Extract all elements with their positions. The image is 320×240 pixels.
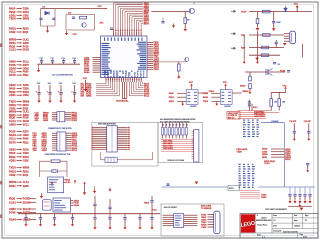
net label RST0 with input arrow xyxy=(9,140,29,144)
capacitor C5 xyxy=(161,22,164,23)
capacitor C13 row1 xyxy=(72,58,76,64)
svg-text:RXD1: RXD1 xyxy=(262,149,268,151)
svg-text:RD01: RD01 xyxy=(9,41,16,45)
caption red xyxy=(201,206,212,210)
U1 right pin labels inside xyxy=(137,42,146,70)
resistor R13 xyxy=(184,18,187,24)
resistor R3 xyxy=(51,160,60,163)
capacitor above bus 1 xyxy=(93,196,96,214)
capacitor bottom-left xyxy=(53,214,56,223)
capacitor bus tap xyxy=(138,214,141,226)
capacitor bus tap xyxy=(123,214,126,226)
capacitor bottom-right 0 xyxy=(288,187,291,201)
svg-text:SCL1: SCL1 xyxy=(253,107,258,109)
wire xyxy=(257,12,259,19)
U1 pin name rows inside top xyxy=(104,38,143,41)
capacitor C11 with ground xyxy=(289,120,297,137)
ground diamond xyxy=(93,189,96,193)
wire crystal loop xyxy=(40,161,67,177)
svg-text:RXD1: RXD1 xyxy=(9,103,16,107)
svg-text:Scale: Scale xyxy=(257,235,261,237)
net label CS02 with input arrow xyxy=(9,30,29,34)
svg-text:RCX UNIT SCHEMATIC: RCX UNIT SCHEMATIC xyxy=(265,208,287,211)
svg-text:SCL1X: SCL1X xyxy=(23,209,31,211)
svg-text:4.5V DC DETECT: 4.5V DC DETECT xyxy=(164,206,179,209)
net label PC05 with input arrow xyxy=(9,63,29,67)
svg-text:CS02: CS02 xyxy=(262,151,268,153)
ground xyxy=(108,225,111,229)
svg-text:PA00: PA00 xyxy=(9,151,16,155)
wire xyxy=(249,88,251,90)
net label CLK1 with input arrow xyxy=(9,200,36,204)
wire xyxy=(40,170,67,172)
svg-text:TXD0: TXD0 xyxy=(23,153,30,155)
capacitor C4 xyxy=(110,28,113,29)
svg-text:ALL CAPS 50V CER UNLESS NOTED: ALL CAPS 50V CER UNLESS NOTED xyxy=(160,120,190,123)
U1 left pin labels inside xyxy=(102,43,112,75)
net label CLK1 with input arrow xyxy=(9,119,30,123)
svg-text:74HC00: 74HC00 xyxy=(190,105,196,108)
ground xyxy=(65,31,68,35)
transistor Q2 xyxy=(189,8,194,13)
svg-text:VCC: VCC xyxy=(98,6,103,8)
net labels right of U5 xyxy=(71,199,80,207)
title block row line 3 xyxy=(272,228,318,230)
wire cap row 1 rail xyxy=(38,63,81,65)
net label CS02 with input arrow xyxy=(9,173,29,177)
svg-text:PC05: PC05 xyxy=(9,63,16,67)
net label AN03 with input arrow xyxy=(9,122,29,126)
svg-text:AD01: AD01 xyxy=(9,158,16,162)
frame zone label left 2 xyxy=(0,125,2,128)
net label CLK1 with input arrow xyxy=(9,48,30,52)
net labels left xyxy=(237,148,249,154)
svg-text:CS02: CS02 xyxy=(23,160,29,162)
capacitor C7 xyxy=(272,12,275,28)
svg-text:OE02: OE02 xyxy=(154,69,160,71)
ground diamond mid xyxy=(108,188,111,192)
capacitor C12 row1 xyxy=(61,58,65,64)
net label SDA0 with input arrow xyxy=(9,66,29,70)
resistor R21 xyxy=(270,93,278,111)
svg-text:SCL1: SCL1 xyxy=(23,62,30,64)
J1 right wires and labels xyxy=(65,113,78,122)
svg-text:PC05: PC05 xyxy=(9,211,16,215)
power feed down arrow xyxy=(83,78,88,91)
capacitor bottom-left xyxy=(24,214,27,223)
title block divider 2 xyxy=(271,214,273,234)
ground xyxy=(73,99,76,103)
J2 left wires and labels xyxy=(33,132,57,152)
svg-text:TXD: TXD xyxy=(33,150,38,152)
connector J4 jack xyxy=(290,31,296,44)
svg-text:PB12: PB12 xyxy=(9,90,16,94)
connector J1 xyxy=(57,112,65,122)
svg-text:1 of 1: 1 of 1 xyxy=(303,236,307,238)
resistor R16 xyxy=(263,34,271,37)
svg-text:CONNECTOR TO THE IR PCB: CONNECTOR TO THE IR PCB xyxy=(48,128,72,130)
dashed section box A xyxy=(92,122,158,166)
wire xyxy=(178,62,180,64)
ground xyxy=(256,60,259,64)
net label PB12 with input arrow xyxy=(9,90,30,94)
off-page arrow 1 xyxy=(231,10,236,12)
svg-text:Sign: Sign xyxy=(305,215,308,217)
svg-text:IRQ0: IRQ0 xyxy=(23,108,29,110)
net label AN03 with input arrow xyxy=(9,60,29,64)
svg-text:IRQ0: IRQ0 xyxy=(23,32,29,34)
ground xyxy=(293,137,296,141)
svg-text:CLK1: CLK1 xyxy=(9,48,16,52)
ground diamond xyxy=(299,201,302,204)
net labels row xyxy=(264,161,275,165)
note box xyxy=(228,185,240,191)
svg-text:C11: C11 xyxy=(50,58,53,60)
resistor R4 block xyxy=(105,157,117,162)
U6 right wires xyxy=(117,127,130,150)
ground xyxy=(150,225,153,229)
svg-text:PC05: PC05 xyxy=(23,118,29,120)
net label CS02 with input arrow xyxy=(9,106,29,110)
capacitor C1 xyxy=(39,18,42,19)
svg-text:RD01: RD01 xyxy=(23,105,30,107)
svg-text:PA00 PB12: PA00 PB12 xyxy=(163,139,172,142)
net label AD01 with input arrow xyxy=(9,158,29,162)
net label IRQ0 with input arrow xyxy=(9,116,29,120)
net label OE02 with input arrow xyxy=(9,148,29,152)
svg-text:CONN FROM THE DISPLAY PCB: CONN FROM THE DISPLAY PCB xyxy=(45,153,72,156)
svg-text:CS02: CS02 xyxy=(9,173,16,177)
svg-text:RXD1: RXD1 xyxy=(23,92,30,94)
svg-text:SDA0: SDA0 xyxy=(9,66,16,70)
svg-text:OE02: OE02 xyxy=(9,148,16,152)
dashed section box B xyxy=(158,122,203,162)
svg-text:LCDBUS: LCDBUS xyxy=(271,121,279,123)
frame zone label left 4 xyxy=(0,215,2,218)
svg-text:CLK1: CLK1 xyxy=(23,112,30,114)
svg-text:RST0: RST0 xyxy=(9,140,16,144)
svg-text:RXD1: RXD1 xyxy=(9,169,16,173)
U11 right wires xyxy=(184,215,198,226)
svg-text:RXD1: RXD1 xyxy=(261,197,267,199)
svg-text:C22: C22 xyxy=(59,83,62,85)
svg-text:CS02: CS02 xyxy=(23,15,29,17)
ground diamond xyxy=(289,201,292,204)
net label AD01 with input arrow xyxy=(9,13,29,17)
capacitor above bus 2 xyxy=(108,199,111,214)
svg-text:AN03: AN03 xyxy=(23,185,30,188)
net label IRQ0 with input arrow xyxy=(9,197,36,201)
wire loop reset circuit xyxy=(41,9,56,26)
capacitor C21 row2 polarized xyxy=(47,83,52,99)
ground xyxy=(184,27,187,31)
blue wire rail bottom right xyxy=(258,186,315,188)
capacitor bottom-left xyxy=(39,214,42,223)
svg-text:MINDSTORMS SET: MINDSTORMS SET xyxy=(256,220,272,222)
svg-text:RD01: RD01 xyxy=(23,171,30,173)
net label WR00 with input arrow xyxy=(9,110,30,114)
svg-text:SDA0: SDA0 xyxy=(9,217,16,221)
svg-text:PB12 AD01: PB12 AD01 xyxy=(237,148,249,151)
blue wire xyxy=(261,122,284,124)
svg-text:PA00: PA00 xyxy=(169,92,175,95)
svg-text:C31: C31 xyxy=(68,13,71,15)
capacitor C10 row1 xyxy=(39,58,43,64)
ground xyxy=(59,99,62,103)
resistor R17 xyxy=(261,46,269,49)
ground diamond xyxy=(309,201,312,204)
red label block in box B xyxy=(163,139,173,150)
svg-text:TXD0: TXD0 xyxy=(237,152,243,154)
svg-text:RXD1: RXD1 xyxy=(9,27,16,31)
svg-text:PB12: PB12 xyxy=(23,75,29,77)
svg-text:PC05: PC05 xyxy=(23,46,29,48)
svg-text:C20: C20 xyxy=(37,83,40,85)
svg-text:PB12: PB12 xyxy=(9,155,16,159)
svg-text:C10..C13 100N CER 10%: C10..C13 100N CER 10% xyxy=(52,75,73,77)
U1 bottom pin numbers xyxy=(106,79,142,80)
svg-text:VCC: VCC xyxy=(283,85,288,87)
net label SCL1 with input arrow xyxy=(9,70,29,74)
svg-text:RST0: RST0 xyxy=(23,65,30,67)
net label IRQ0 with input arrow xyxy=(9,44,29,48)
svg-text:IRQ0: IRQ0 xyxy=(23,175,29,177)
diode D2 xyxy=(284,6,288,12)
crystal X1 xyxy=(52,169,58,173)
ground xyxy=(307,137,310,141)
net labels right of U4 xyxy=(64,180,72,185)
capacitor C22 row2 polarized xyxy=(58,83,63,99)
dashed section box C xyxy=(161,204,224,236)
svg-text:VCC: VCC xyxy=(83,78,88,80)
red rail xyxy=(288,205,312,207)
svg-text:PC05X: PC05X xyxy=(23,199,31,201)
svg-text:VCC: VCC xyxy=(189,82,194,84)
svg-text:C10: C10 xyxy=(39,58,42,60)
ground xyxy=(93,225,96,229)
svg-text:Page: Page xyxy=(300,234,304,236)
U1 bottom pin label cluster inside xyxy=(104,71,144,78)
svg-text:SCL1: SCL1 xyxy=(144,96,150,98)
ground xyxy=(48,99,51,103)
svg-text:1 : 1: 1 : 1 xyxy=(262,236,265,238)
svg-text:PA00: PA00 xyxy=(9,86,16,90)
svg-text:C13: C13 xyxy=(72,58,75,60)
power arrow with ground xyxy=(83,182,86,195)
U1 top pin numbers xyxy=(113,30,142,32)
svg-text:IRQ0: IRQ0 xyxy=(9,197,16,201)
net label PA00 with input arrow xyxy=(9,86,29,90)
net label PA00 with input arrow xyxy=(9,7,29,11)
svg-text:SDA0X: SDA0X xyxy=(23,201,31,204)
svg-text:CS02: CS02 xyxy=(9,30,16,34)
title block row line 1 xyxy=(272,217,318,219)
net label RST0 with input arrow xyxy=(9,73,29,77)
svg-text:AD01: AD01 xyxy=(9,93,16,97)
net label PC05 with input arrow xyxy=(9,211,36,215)
svg-text:WR00: WR00 xyxy=(23,102,30,104)
svg-text:SDA0: SDA0 xyxy=(74,204,80,207)
resistor R19 xyxy=(249,76,252,81)
op-amp U8 xyxy=(220,90,232,105)
capacitor bottom-right 2 xyxy=(298,187,301,201)
svg-text:PV: PV xyxy=(305,220,307,222)
right wire with label xyxy=(232,92,242,94)
net label RXD1 with input arrow xyxy=(9,169,29,173)
power label VCC right xyxy=(283,85,288,92)
capacitor bottom-right 4 xyxy=(308,187,311,201)
svg-text:SDA0: SDA0 xyxy=(23,49,30,52)
IC U11 xyxy=(174,214,184,228)
svg-text:VCC: VCC xyxy=(294,3,299,5)
net label PA00 with input arrow xyxy=(9,151,29,155)
capacitor bottom-left xyxy=(71,214,74,223)
svg-text:C23: C23 xyxy=(72,83,75,85)
title block bottom row line xyxy=(240,232,318,234)
ground xyxy=(39,222,42,226)
transistor Q4 symbol xyxy=(266,69,273,76)
net label RXD1 with input arrow xyxy=(9,103,29,107)
capacitor bus tap xyxy=(93,214,96,226)
svg-text:AD01: AD01 xyxy=(23,149,30,152)
bus fan wires from U1 bottom left xyxy=(81,82,120,98)
net label RD01 with input arrow xyxy=(9,113,29,117)
left wires and labels xyxy=(203,93,221,103)
wire bottom bus rail xyxy=(18,213,160,215)
wire xyxy=(257,31,259,60)
connector J3 in box B xyxy=(194,130,199,163)
svg-text:TXD0: TXD0 xyxy=(23,9,30,11)
connector J2 xyxy=(57,132,66,151)
svg-text:RXD1: RXD1 xyxy=(23,157,30,159)
svg-text:OE02X: OE02X xyxy=(23,219,31,221)
svg-text:PC05: PC05 xyxy=(280,70,286,72)
svg-text:CLK1: CLK1 xyxy=(264,163,270,165)
capacitor C13 with ground xyxy=(306,163,309,172)
svg-text:OE02: OE02 xyxy=(23,135,30,137)
capacitor C14 xyxy=(166,183,169,185)
svg-text:WR00: WR00 xyxy=(9,180,17,184)
capacitor C12 with ground xyxy=(304,120,312,137)
J4 pin wires xyxy=(284,34,290,42)
svg-text:C12 47P: C12 47P xyxy=(304,120,312,123)
wire long right pin xyxy=(147,61,187,63)
svg-text:WR00: WR00 xyxy=(23,19,30,21)
diode D1 xyxy=(45,11,49,15)
U11 left wires xyxy=(163,215,174,226)
svg-text:PA00: PA00 xyxy=(23,71,29,74)
op-amp U7 xyxy=(186,90,198,105)
oscillator Y1 can xyxy=(43,200,52,211)
net label WR00 with input arrow xyxy=(9,38,30,42)
ground xyxy=(24,222,27,226)
svg-text:IRQ0: IRQ0 xyxy=(9,44,16,48)
power arrow VCC xyxy=(51,182,54,186)
svg-text:REV 1.0: REV 1.0 xyxy=(228,117,234,119)
capacitor C2 xyxy=(52,18,55,19)
ground xyxy=(71,222,74,226)
U1 right pin wires and labels xyxy=(147,42,160,71)
left wires and labels xyxy=(169,92,187,103)
title block divider 3 xyxy=(292,214,294,229)
title block row line 2 xyxy=(272,222,318,224)
J2 right wires and labels xyxy=(66,133,78,152)
svg-text:SCL1: SCL1 xyxy=(72,150,78,152)
capacitor C10 xyxy=(287,71,290,72)
svg-text:C21: C21 xyxy=(48,83,51,85)
wire xyxy=(47,26,49,29)
net label RD01 with input arrow xyxy=(9,41,29,45)
net label AD01 with input arrow xyxy=(9,93,29,97)
polarized cap C6 diamond xyxy=(253,28,259,31)
svg-text:SW1-SW4 BUTTONS: SW1-SW4 BUTTONS xyxy=(98,123,116,126)
frame zone label left 1 xyxy=(0,44,2,47)
svg-text:NOTE: NOTE xyxy=(229,188,233,190)
wire xyxy=(101,152,153,160)
net label PB12 with input arrow xyxy=(9,10,30,14)
svg-text:CLK1: CLK1 xyxy=(9,200,16,204)
ground diamond xyxy=(294,201,297,204)
ground diamond xyxy=(255,58,259,61)
ground xyxy=(37,68,40,72)
J1 left wires and labels xyxy=(35,113,57,122)
capacitor C23 row2 polarized xyxy=(71,83,76,99)
ground xyxy=(243,60,246,64)
bus fan wires from U1 top xyxy=(114,3,144,32)
svg-text:TXD0: TXD0 xyxy=(9,166,16,170)
frame zone label left 3 xyxy=(0,181,2,184)
svg-text:SDA0: SDA0 xyxy=(9,133,16,137)
capacitor C9 xyxy=(273,62,281,65)
wire to Q2 xyxy=(152,11,191,13)
ground big xyxy=(298,203,301,207)
svg-text:PA00: PA00 xyxy=(9,7,16,11)
svg-text:PB12 AD01: PB12 AD01 xyxy=(163,142,173,145)
svg-text:AN03: AN03 xyxy=(43,119,49,122)
wire rail 4 xyxy=(249,54,280,56)
svg-text:RST0: RST0 xyxy=(144,24,150,26)
net label TXD0 with input arrow xyxy=(9,17,30,21)
svg-text:TXD0 RXD1: TXD0 RXD1 xyxy=(163,148,173,150)
svg-text:PB12: PB12 xyxy=(169,97,175,99)
svg-text:AN03: AN03 xyxy=(23,42,30,45)
svg-text:RD01: RD01 xyxy=(23,29,30,31)
transistor Q3 xyxy=(185,58,189,62)
blue wire xyxy=(162,186,228,188)
wire xyxy=(249,72,251,76)
wire connector down xyxy=(302,44,304,58)
net label RD01 with input arrow xyxy=(9,184,29,188)
net label RXD1 with input arrow xyxy=(9,27,29,31)
red label block xyxy=(254,110,265,117)
svg-text:TXD0: TXD0 xyxy=(9,17,16,21)
svg-text:VOUT: VOUT xyxy=(241,12,247,14)
notes text xyxy=(160,118,196,124)
resistor R22 xyxy=(278,93,286,111)
net label PB12 with input arrow xyxy=(9,155,30,159)
svg-text:CS02: CS02 xyxy=(209,91,215,93)
capacitor C8 xyxy=(275,40,278,48)
net label rows mid right xyxy=(262,149,284,159)
svg-text:OE02: OE02 xyxy=(9,83,16,87)
J5 wires and labels xyxy=(201,213,214,229)
right wire with label xyxy=(198,92,208,94)
red stamp box xyxy=(227,112,240,120)
bus fan wires from U1 bottom right xyxy=(129,82,150,98)
svg-text:OE02: OE02 xyxy=(23,68,30,70)
off-page arrow 3 xyxy=(231,47,236,49)
red label block 2 xyxy=(261,194,267,198)
